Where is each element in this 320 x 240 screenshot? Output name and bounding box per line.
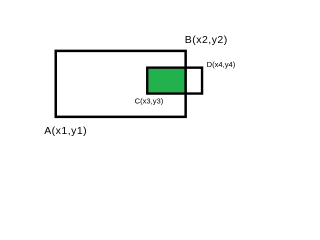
- svg-text:D(x4,y4): D(x4,y4): [207, 60, 236, 69]
- svg-text:A(x1,y1): A(x1,y1): [44, 125, 87, 137]
- svg-text:B(x2,y2): B(x2,y2): [185, 34, 228, 46]
- rectangle A-B (large): [56, 51, 186, 117]
- rectangle C-D (small): [147, 68, 202, 94]
- green intersection fill: [148, 69, 184, 93]
- svg-text:C(x3,y3): C(x3,y3): [135, 96, 164, 105]
